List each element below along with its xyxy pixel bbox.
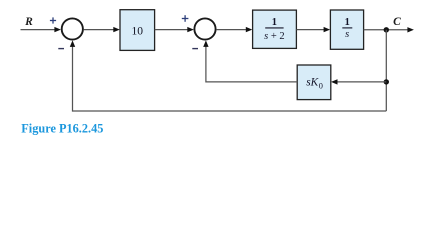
- plus sign at S1 input: [50, 17, 56, 23]
- node C output label: [393, 16, 401, 28]
- wire S1 to block 10: [84, 27, 120, 32]
- svg-text:C: C: [393, 16, 401, 28]
- svg-text:1: 1: [345, 17, 350, 28]
- wire input R to summing junction S1: [21, 27, 61, 32]
- block gain 10: [120, 10, 155, 51]
- wire tap to block sK0: [331, 79, 386, 84]
- wire block 1/s to output C: [364, 27, 414, 32]
- wire block 10 to summing junction S2: [155, 27, 194, 32]
- svg-text:Figure P16.2.45: Figure P16.2.45: [21, 121, 103, 135]
- wire S2 to block 1/(s+2): [216, 27, 252, 32]
- summing junction S1: [62, 18, 83, 39]
- svg-text:sK: sK: [306, 76, 319, 88]
- node output branch dot: [384, 27, 389, 32]
- svg-text:R: R: [24, 16, 33, 28]
- wire block sK0 to summing junction S2: [203, 40, 297, 82]
- block feedback sK0: [297, 65, 331, 100]
- svg-text:0: 0: [319, 81, 323, 90]
- plus sign at S2 input: [182, 15, 189, 22]
- svg-text:10: 10: [132, 26, 144, 38]
- caption Figure P16.2.45: [21, 121, 103, 135]
- block integrator 1/s: [330, 10, 363, 49]
- node R input label: [24, 16, 33, 28]
- svg-text:1: 1: [272, 17, 277, 28]
- minus sign at S1 feedback input: [58, 48, 64, 50]
- wire outer feedback loop bottom: [70, 40, 387, 111]
- block transfer function 1/(s+2): [253, 10, 297, 48]
- wire block 1/(s+2) to block 1/s: [297, 27, 331, 32]
- summing junction S2: [194, 18, 215, 39]
- wire output branch down right side: [385, 30, 387, 111]
- minus sign at S2 feedback input: [192, 48, 198, 50]
- svg-text:s + 2: s + 2: [264, 31, 285, 42]
- svg-text:s: s: [345, 29, 349, 40]
- node inner feedback tap dot: [384, 79, 389, 84]
